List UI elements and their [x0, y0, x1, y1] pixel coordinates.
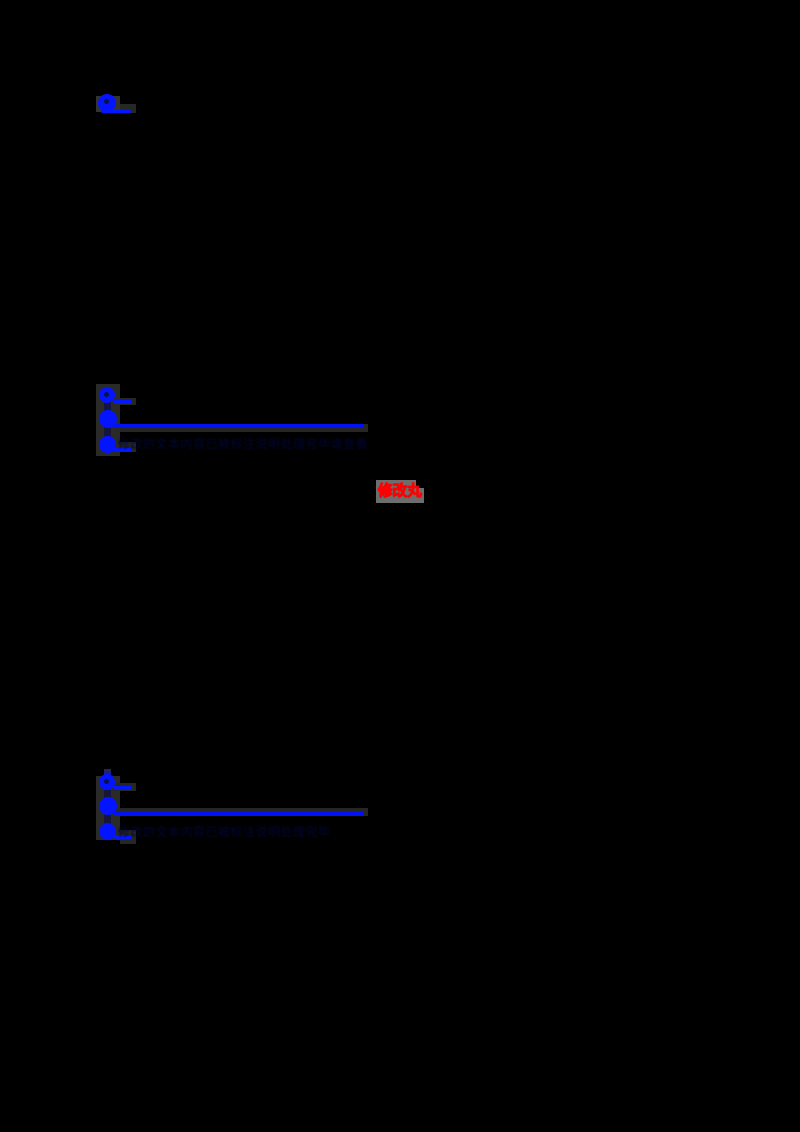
group 2: short blue line 3: [114, 835, 132, 839]
group 1: gray band row 2 (under long line): [120, 424, 368, 432]
group 1: dark hole in disc 1: [104, 392, 109, 397]
group 1: connector disc1-disc2: [104, 402, 111, 412]
group 2: blue disc 1: [99, 774, 115, 790]
top annotation chip: blue underline: [101, 110, 131, 113]
red annotation: red CJK text: [378, 483, 428, 500]
group 1: blue disc 3: [99, 436, 116, 453]
group 2: short blue line 1: [113, 786, 132, 790]
group 2: faint link text row: [118, 823, 348, 837]
group 2: gray highlight column: [96, 776, 120, 840]
group 2: blue tab above disc 1: [104, 769, 111, 777]
red annotation: gray box extension: [416, 488, 424, 503]
group 1: blue disc 2: [99, 410, 117, 428]
top annotation chip: gray highlight box: [96, 96, 120, 112]
top annotation chip: dark hole in disc: [104, 99, 109, 104]
group 2: blue disc 2: [99, 797, 117, 815]
group 2: connector disc2-disc3: [104, 815, 111, 824]
group 1: gray arm row 3: [120, 442, 136, 452]
group 1: faint link text row: [118, 435, 370, 449]
group 1: short blue line 1: [113, 400, 132, 404]
group 2: long blue line: [113, 811, 364, 815]
red annotation: gray highlight box: [376, 480, 416, 503]
top annotation chip: gray tail box: [120, 104, 136, 113]
group 2: gray band row 2 (around long line): [120, 808, 368, 816]
group 2: dark hole in disc 1: [104, 779, 109, 784]
group 1: short blue line 3: [114, 448, 132, 452]
group 2: gray arm row 3: [120, 830, 136, 844]
group 1: long blue line: [113, 424, 364, 428]
group 2: blue disc 3: [99, 823, 116, 840]
group 1: blue disc 1: [99, 387, 115, 403]
group 2: connector disc1-disc2: [104, 790, 111, 799]
group 1: gray arm row 1: [120, 398, 136, 405]
top annotation chip: blue disc icon: [98, 94, 116, 112]
group 1: connector disc2-disc3: [104, 427, 111, 437]
group 1: gray highlight column: [96, 384, 120, 456]
group 2: gray arm row 1: [113, 783, 136, 791]
